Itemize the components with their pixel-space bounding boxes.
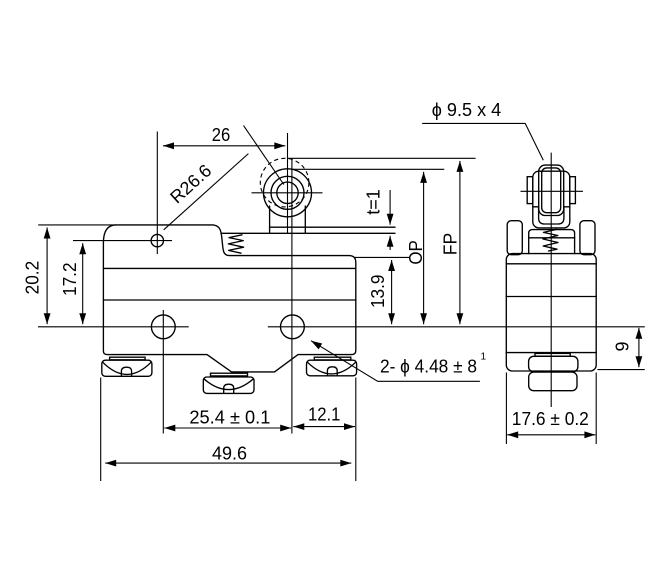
side view: pin tab right [570,177,576,204]
side nut upper [529,356,578,371]
svg-text:26: 26 [212,125,231,145]
terminal left head [102,360,152,376]
svg-text:1: 1 [481,352,487,363]
roller bracket right arm [304,206,306,233]
front spring [228,235,243,253]
svg-text:17.2: 17.2 [60,262,80,296]
side body line 1 [506,263,596,265]
terminal right slot [327,367,337,375]
terminal right head arc [308,362,356,374]
roller bracket left arm [269,206,271,233]
svg-text:12.1: 12.1 [308,404,341,424]
side nut lower [529,372,577,391]
dimension FP [459,161,461,324]
dimension OP [423,172,425,324]
side view: post right [580,221,595,255]
dimension 49.6 [100,378,102,482]
terminal left slot [121,367,131,376]
side view: plunger collar line [529,237,575,239]
svg-text:ϕ 9.5 x 4: ϕ 9.5 x 4 [432,100,502,120]
terminal center head arc [204,379,253,389]
side view: plunger [529,230,575,254]
terminal right head [307,360,357,376]
hole centerline left segment [38,326,189,328]
leader 2-φ4.48 [311,341,480,382]
dimension t=1 [389,190,391,225]
svg-text:13.9: 13.9 [368,275,388,309]
hole centerline right long segment [268,326,645,328]
side view: fork outer [533,171,570,228]
side body line 2 [506,296,596,298]
svg-text:2- ϕ 4.48 ± 8: 2- ϕ 4.48 ± 8 [380,356,477,376]
dimension 17.2 [82,243,84,324]
dimension 9 [598,369,645,371]
side view: fork inner [539,207,564,225]
dimension 26 [163,145,285,147]
leader φ9.5 x 4 [422,123,543,160]
lever strip bottom line [221,232,395,234]
svg-text:FP: FP [440,233,460,256]
svg-text:25.4 ± 0.1: 25.4 ± 0.1 [189,408,270,428]
side view: pin tab left [527,177,533,204]
terminal center cap [211,373,248,376]
svg-text:17.6 ± 0.2: 17.6 ± 0.2 [512,409,589,429]
svg-text:49.6: 49.6 [212,443,247,463]
terminal center head [203,377,254,393]
side view: roller [539,165,564,215]
right hole / roller vertical extension [291,158,293,433]
FP reference line [288,157,476,159]
side view: plate bottom tick left [533,206,539,208]
pivot crosshair horizontal (also 17.2 extension) [73,240,172,242]
dimension 13.9 [354,256,410,258]
roller middle circle [271,176,304,209]
R26.6 leader line [164,154,249,230]
dimension 25.4 ± 0.1 [164,427,291,429]
front view: switch body outline [103,225,355,372]
terminal left cap [110,357,146,360]
side body line 3 [506,352,596,354]
terminal left head arc [103,362,151,374]
svg-text:OP: OP [406,240,426,265]
lever pivot hole [151,234,163,246]
side view: body [506,254,596,371]
svg-text:9: 9 [613,341,633,351]
side view: pin crosshair [521,190,584,192]
roller crosshair horizontal [252,192,323,194]
pivot vertical line (also 26 extension) [156,132,158,255]
svg-text:t=1: t=1 [363,189,383,215]
roller pin circle [277,182,298,203]
front body interior line 1 [103,267,355,269]
dimension 12.1 [293,426,355,428]
OP reference line [291,168,444,170]
roller center vertical line (26 extension) [287,133,289,233]
mounting hole left [151,315,175,339]
roller free-position dashed circle [260,158,309,207]
front body interior line 2 [103,299,355,301]
dimension 20.2 [38,224,116,226]
side view: roller inner [542,168,561,213]
terminal right cap [314,357,351,360]
side view: post left [507,221,522,255]
radius leader to roller center [244,126,284,185]
left hole vertical extension [162,310,164,434]
side view: plate bottom tick right [564,206,570,208]
svg-text:20.2: 20.2 [22,261,42,295]
side view centerline [550,153,552,407]
roller outer circle [264,169,312,217]
side view: spring [543,229,558,251]
mounting hole right [281,315,305,339]
lever strip top line [270,226,395,228]
dimension 17.6 ± 0.2 [505,373,507,445]
terminal center slot [224,384,234,393]
side terminal cap [535,353,570,356]
